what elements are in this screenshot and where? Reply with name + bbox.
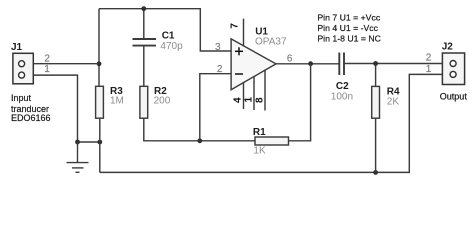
- resistor R4: [372, 64, 380, 173]
- svg-text:R1: R1: [253, 127, 266, 138]
- pin 1 stub: [253, 76, 255, 110]
- svg-text:1: 1: [44, 64, 50, 75]
- svg-text:2: 2: [426, 53, 432, 64]
- wire R2 bottom to R1: [144, 118, 255, 141]
- pin 7 stub: [243, 19, 245, 47]
- label Input tranducer EDO6166: [11, 93, 51, 123]
- node junction J1pin2/R3: [97, 61, 102, 66]
- wire bottom rail: [100, 74, 452, 172]
- pin 8 stub: [264, 70, 266, 111]
- capacitor C2: [339, 53, 452, 76]
- svg-text:EDO6166: EDO6166: [11, 113, 51, 123]
- svg-text:4: 4: [232, 97, 243, 103]
- node junction R3 bottom: [97, 140, 102, 145]
- svg-text:470p: 470p: [160, 41, 183, 52]
- wire J1 pin1: [23, 75, 78, 142]
- wire output: [276, 63, 339, 65]
- svg-text:1: 1: [244, 97, 255, 103]
- svg-text:2: 2: [217, 64, 223, 75]
- resistor R1: [255, 137, 289, 145]
- wire ground link: [78, 141, 100, 143]
- wire R3 lead to bottom rail: [99, 118, 101, 172]
- svg-text:200: 200: [154, 96, 171, 107]
- svg-text:Output: Output: [440, 92, 468, 102]
- node junction inverting input: [197, 138, 202, 143]
- op-amp U1: [231, 39, 276, 90]
- svg-text:C1: C1: [162, 30, 175, 41]
- note pin assignments: [317, 12, 381, 43]
- op-amp minus sign: [235, 73, 243, 75]
- svg-text:Input: Input: [11, 93, 32, 103]
- connector J1: [13, 53, 33, 84]
- resistor R2: [140, 86, 148, 118]
- svg-text:6: 6: [287, 54, 293, 65]
- svg-text:8: 8: [254, 97, 265, 103]
- svg-text:1M: 1M: [110, 96, 124, 107]
- wire left vertical net: [98, 9, 100, 87]
- node junction C2/R4: [373, 61, 378, 66]
- svg-text:2: 2: [44, 54, 50, 65]
- node junction C1 top: [141, 6, 146, 11]
- node junction R4 bottom: [373, 170, 378, 175]
- wire pin2 riser: [200, 74, 231, 141]
- wire top rail to pin3: [99, 9, 231, 51]
- svg-text:1: 1: [426, 64, 432, 75]
- svg-text:Pin 7 U1 = +Vcc: Pin 7 U1 = +Vcc: [317, 12, 380, 22]
- node junction ground: [75, 140, 80, 145]
- svg-text:Pin 1-8 U1 = NC: Pin 1-8 U1 = NC: [317, 33, 381, 43]
- op-amp plus sign: [235, 47, 243, 55]
- wire J1 pin2: [23, 63, 99, 65]
- svg-text:3: 3: [215, 42, 221, 53]
- connector J2: [442, 53, 464, 85]
- capacitor C1: [133, 9, 157, 87]
- svg-text:C2: C2: [336, 81, 349, 92]
- svg-text:1K: 1K: [253, 146, 266, 157]
- ground: [67, 142, 89, 172]
- resistor R3: [96, 86, 104, 118]
- svg-text:J2: J2: [442, 42, 454, 53]
- wire R1 right riser: [288, 64, 310, 141]
- node junction output/R1: [308, 61, 313, 66]
- svg-text:7: 7: [230, 23, 241, 29]
- svg-text:J1: J1: [11, 42, 23, 53]
- svg-text:OPA37: OPA37: [255, 37, 287, 48]
- svg-text:2K: 2K: [387, 97, 400, 108]
- svg-text:Pin 4 U1 = -Vcc: Pin 4 U1 = -Vcc: [317, 23, 378, 33]
- svg-text:100n: 100n: [331, 92, 353, 103]
- pin 4 stub: [243, 82, 245, 109]
